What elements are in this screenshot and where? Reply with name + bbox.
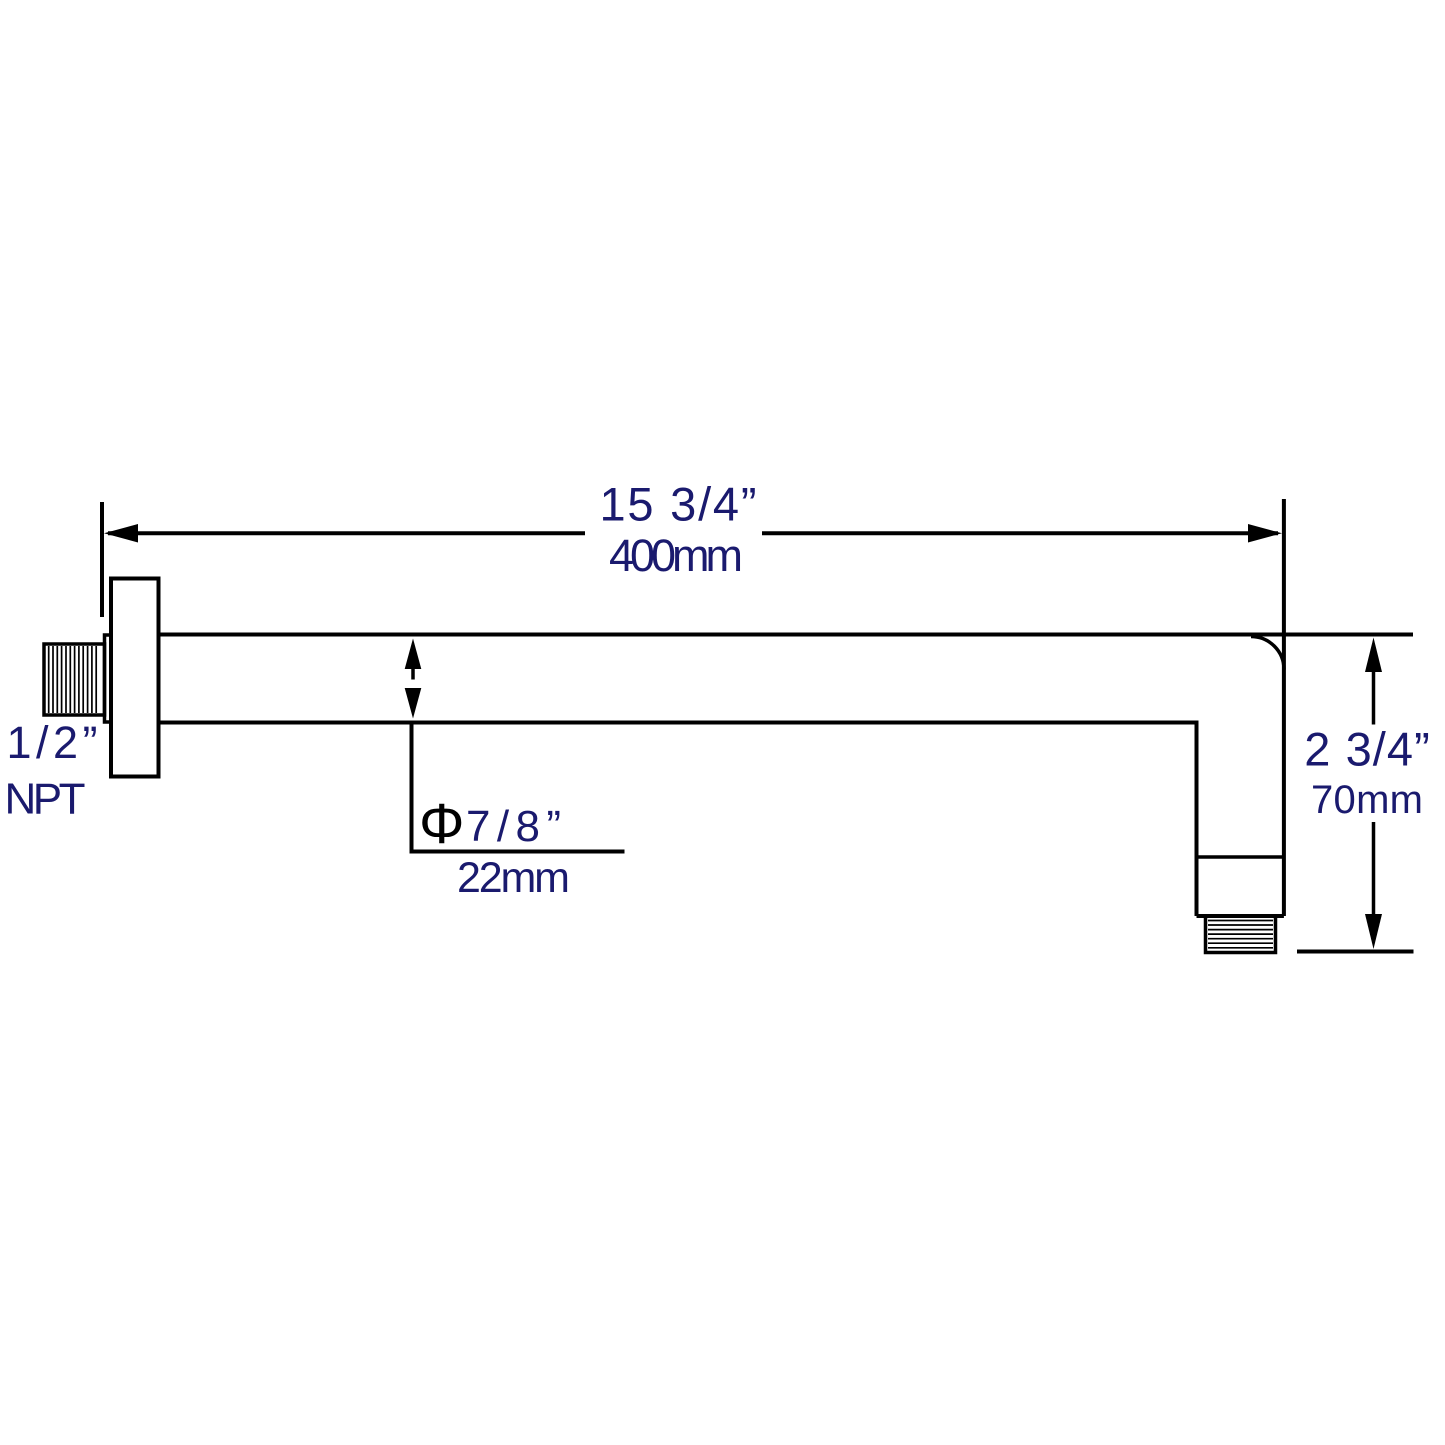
bottom threaded connector — [1206, 916, 1276, 953]
shower arm tube top edge (extends right as extension line) — [159, 633, 1414, 637]
svg-text:1/2”: 1/2” — [7, 717, 98, 768]
svg-text:15 3/4”: 15 3/4” — [600, 478, 757, 531]
1/2 NPT threaded nipple (left) — [44, 644, 105, 715]
outer bend fillet arc — [1251, 637, 1284, 670]
left extension line for 400mm dimension — [100, 502, 104, 617]
svg-text:NPT: NPT — [5, 775, 86, 824]
wall flange plate — [111, 579, 159, 777]
diameter leader line — [412, 724, 625, 852]
svg-text:70mm: 70mm — [1311, 778, 1423, 822]
drop pipe right edge (extends up as extension line) — [1282, 499, 1286, 916]
collar between thread and flange — [105, 635, 112, 722]
divider line on drop pipe — [1197, 855, 1284, 859]
tube diameter double arrow (up) — [405, 639, 422, 680]
bottom edge of drop pipe wide section — [1197, 914, 1284, 918]
bottom reference line — [1297, 950, 1414, 954]
70mm dimension down arrow — [1365, 822, 1382, 949]
svg-text:2 3/4”: 2 3/4” — [1304, 723, 1430, 776]
shower arm tube bottom edge + drop pipe left edge — [159, 723, 1197, 917]
svg-text:22mm: 22mm — [457, 854, 570, 902]
400mm dimension line right segment with right arrowhead — [762, 524, 1282, 543]
70mm dimension up arrow — [1365, 638, 1382, 725]
400mm dimension line left segment with left arrowhead — [104, 524, 585, 543]
tube diameter double arrow (down) — [405, 688, 422, 719]
svg-text:400mm: 400mm — [609, 530, 743, 581]
svg-text:Φ: Φ — [419, 792, 464, 856]
